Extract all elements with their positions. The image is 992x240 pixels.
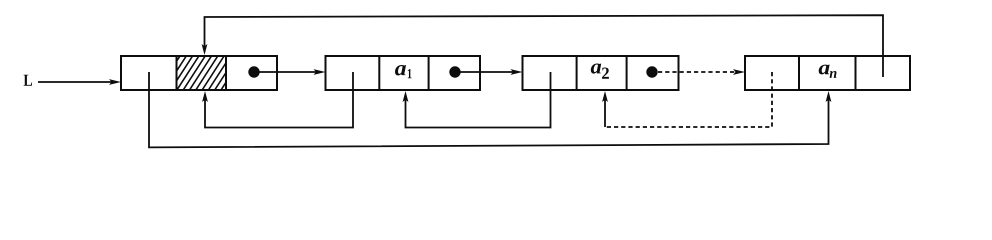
wire head.prior along bottom to node an <box>149 72 831 147</box>
wire a1.next to node a2 <box>455 69 523 75</box>
dashed wire an.prior back to node a2 <box>602 72 772 127</box>
wire L to head node <box>38 79 121 85</box>
node 3 (a2) box <box>523 56 679 90</box>
wire a2.prior back to node a1 <box>403 72 551 128</box>
label an <box>819 65 837 78</box>
dashed wire a2.next to node an <box>658 69 745 75</box>
node 2 (a1) box <box>326 56 481 90</box>
wire a1.prior back to head node <box>202 72 353 128</box>
pointer dot in head node next field <box>248 66 259 77</box>
wire an.next along top back to head node <box>202 15 883 77</box>
node 4 (an) box <box>745 56 910 90</box>
hatched cell of head node <box>158 56 243 90</box>
node 1 (head) box <box>121 56 277 90</box>
label a1 <box>395 65 412 78</box>
label a2 <box>591 64 609 79</box>
pointer dot in node a1 next field <box>449 66 460 77</box>
wire head.next to node a1 <box>254 69 326 75</box>
label L <box>24 75 32 86</box>
pointer dot in node a2 next field <box>646 66 657 77</box>
